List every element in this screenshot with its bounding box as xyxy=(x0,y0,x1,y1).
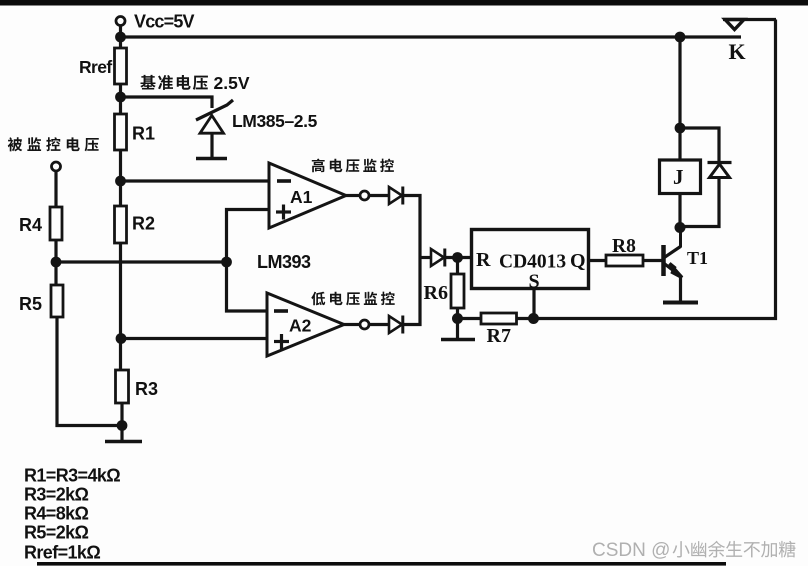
wire R4 to divider node xyxy=(54,240,57,262)
svg-text:R: R xyxy=(476,249,491,271)
svg-text:Rref: Rref xyxy=(79,57,112,77)
svg-text:S: S xyxy=(529,271,540,293)
wire S node to right rail xyxy=(534,317,778,320)
wire rail to Rref xyxy=(119,37,122,48)
diode D1 xyxy=(369,194,389,197)
ground R6 xyxy=(456,319,459,339)
wire S pin xyxy=(532,288,535,319)
wire R2-R3 node to A2 non-inverting input xyxy=(121,337,268,340)
label 低电压监控 xyxy=(311,292,325,306)
svg-text:A1: A1 xyxy=(290,187,313,207)
junction ground node xyxy=(117,420,128,431)
resistor R2 xyxy=(119,181,122,206)
wire Rref to reference node xyxy=(119,84,122,97)
wire collector node to freewheel diode xyxy=(680,179,719,227)
wire OR node to D3 xyxy=(420,256,431,259)
power terminal Vcc xyxy=(116,17,125,26)
svg-text:Q: Q xyxy=(570,250,586,272)
svg-text:A2: A2 xyxy=(289,316,312,336)
op-amp A1 xyxy=(269,163,346,228)
input terminal monitored voltage xyxy=(52,162,61,171)
junction R2-R3 node xyxy=(116,333,127,344)
junction collector node xyxy=(675,222,686,233)
svg-text:R4=8kΩ: R4=8kΩ xyxy=(24,504,89,524)
junction reference node 2.5V xyxy=(115,92,126,103)
wire top rail xyxy=(121,35,681,38)
svg-text:CD4013: CD4013 xyxy=(499,252,566,273)
svg-text:Rref=1kΩ: Rref=1kΩ xyxy=(24,543,100,563)
label 高电压监控 xyxy=(312,159,325,173)
wire D1 to OR node xyxy=(403,196,420,258)
svg-text:R1=R3=4kΩ: R1=R3=4kΩ xyxy=(24,466,120,486)
wire D3 to R input xyxy=(445,256,471,259)
wire divider node to sense column xyxy=(56,260,227,263)
wire emitter to ground xyxy=(679,277,682,302)
wire terminal to R4 xyxy=(54,171,57,207)
junction R4-R5 node xyxy=(51,257,62,268)
wire R1 to node xyxy=(119,150,122,181)
resistor R1 xyxy=(119,97,122,114)
junction top rail relay branch xyxy=(675,32,686,43)
diode D2 xyxy=(369,323,389,326)
svg-text:J: J xyxy=(673,165,684,189)
svg-text:R2: R2 xyxy=(132,214,155,234)
wire rail to K contact xyxy=(680,35,741,38)
resistor R4 xyxy=(50,207,62,240)
diode D3 xyxy=(431,249,444,266)
wire Vcc terminal to rail xyxy=(119,26,122,38)
resistor Rref xyxy=(115,48,127,84)
wire diode top to relay top xyxy=(680,128,719,164)
ground LM385 xyxy=(196,157,227,161)
junction R input node xyxy=(452,252,463,263)
wire R6 to bottom node xyxy=(456,308,459,319)
wire right rail xyxy=(774,20,777,321)
IC CD4013 xyxy=(472,230,589,289)
junction relay top xyxy=(675,123,686,134)
ground main xyxy=(105,440,142,444)
wire node to A1 inverting input xyxy=(121,179,271,182)
label 基准电压 2.5V xyxy=(140,75,155,90)
svg-text:R5: R5 xyxy=(19,294,42,314)
wire Q to R8 xyxy=(588,259,607,262)
junction top rail at Vcc xyxy=(115,32,126,43)
relay coil J xyxy=(678,128,681,160)
wire collector xyxy=(678,228,681,233)
label 被监控电压 xyxy=(8,137,22,151)
resistor R8 xyxy=(606,255,643,266)
svg-text:2.5V: 2.5V xyxy=(214,73,250,93)
wire reference node to zener xyxy=(121,97,213,108)
op-amp A2 xyxy=(267,293,344,356)
output node A2 xyxy=(344,323,360,326)
junction R1-R2 node xyxy=(115,176,126,187)
svg-text:R3: R3 xyxy=(135,379,158,399)
resistor R6 xyxy=(456,258,459,275)
wire sense column xyxy=(227,210,271,312)
output node A1 xyxy=(346,194,360,197)
svg-text:K: K xyxy=(729,39,746,64)
svg-text:R8: R8 xyxy=(612,236,636,257)
svg-text:CSDN @: CSDN @ xyxy=(592,540,670,561)
wire ground lead xyxy=(120,426,123,441)
svg-text:R7: R7 xyxy=(487,325,511,347)
zener diode LM385-2.5 xyxy=(196,100,233,120)
wire R3 to ground node xyxy=(120,403,123,426)
svg-text:LM393: LM393 xyxy=(257,252,311,272)
junction R6 bottom node xyxy=(452,313,463,324)
svg-text:R6: R6 xyxy=(424,282,448,304)
svg-text:R4: R4 xyxy=(19,215,42,235)
wire D2 to OR node xyxy=(403,258,420,325)
junction sense column xyxy=(221,257,232,268)
resistor R3 xyxy=(116,370,129,403)
svg-text:R5=2kΩ: R5=2kΩ xyxy=(24,523,89,543)
switch K xyxy=(725,20,744,30)
svg-text:LM385–2.5: LM385–2.5 xyxy=(232,111,318,131)
wire R7 to S node xyxy=(517,317,534,320)
junction S node xyxy=(528,313,539,324)
svg-text:T1: T1 xyxy=(687,248,708,268)
wire relay bottom xyxy=(678,194,681,228)
diode D4 freewheel xyxy=(710,164,730,178)
svg-text:Vcc=5V: Vcc=5V xyxy=(134,12,195,32)
wire R8 to base xyxy=(643,259,662,262)
ground emitter xyxy=(663,301,698,305)
resistor R5 xyxy=(54,262,57,285)
svg-text:R3=2kΩ: R3=2kΩ xyxy=(24,485,89,505)
transistor T1 xyxy=(661,245,666,276)
wire R5 to ground node xyxy=(57,317,122,426)
resistor R7 xyxy=(458,317,482,320)
wire R2 to R3 xyxy=(119,243,122,370)
svg-text:R1: R1 xyxy=(132,124,155,144)
wire top rail to relay xyxy=(678,37,681,128)
